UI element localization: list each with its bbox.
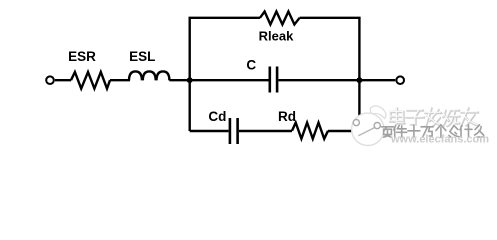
wire bottom left — [190, 130, 229, 132]
wire Rd to node B branch — [328, 130, 352, 132]
node A junction dot — [187, 77, 193, 83]
watermark logo (elecfans) — [352, 106, 386, 146]
svg-text:www.elecfans.com: www.elecfans.com — [390, 134, 489, 146]
svg-text:ESL: ESL — [129, 49, 155, 64]
wire T1 to ESR — [55, 79, 71, 81]
svg-text:Cd: Cd — [208, 109, 226, 124]
inductor ESL — [129, 71, 169, 80]
svg-text:ESR: ESR — [68, 49, 96, 64]
wire node B to T2 — [359, 79, 395, 81]
wire Cd to Rd — [239, 130, 292, 132]
terminal T2 (right) — [396, 76, 404, 84]
svg-text:Rleak: Rleak — [259, 28, 294, 43]
wire node A to C — [190, 79, 269, 81]
wire C to node B — [278, 79, 359, 81]
resistor Rleak — [260, 12, 300, 25]
resistor ESR — [71, 72, 110, 89]
wire right vertical — [358, 18, 360, 131]
svg-text:C: C — [246, 58, 256, 73]
svg-text:Rd: Rd — [278, 109, 296, 124]
capacitor Cd — [229, 118, 232, 144]
wire top left — [189, 17, 261, 19]
wire left vertical (node A up/down) — [188, 18, 190, 131]
node B junction dot — [357, 77, 363, 83]
capacitor C — [268, 67, 271, 93]
terminal T1 (left) — [46, 76, 54, 84]
watermark text 硬件十万个为什么 — [383, 126, 485, 139]
wire ESL to node A — [169, 79, 189, 81]
resistor Rd — [292, 123, 328, 139]
wire top right — [300, 17, 361, 19]
wire ESR to ESL — [110, 79, 130, 81]
